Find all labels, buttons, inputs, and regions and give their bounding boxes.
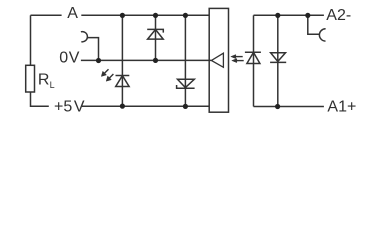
svg-text:R: R bbox=[38, 72, 50, 89]
node: A2- rail / D2 junction bbox=[275, 13, 280, 18]
LED D1 triangle (right input) bbox=[247, 52, 260, 63]
contact socket at A2- branch bbox=[319, 29, 325, 41]
svg-text:A: A bbox=[67, 5, 78, 22]
svg-text:A2-: A2- bbox=[326, 7, 351, 24]
wire: top A rail from label to module box bbox=[81, 14, 209, 16]
wire: 0V line from label to amplifier apex bbox=[81, 59, 212, 61]
svg-text:L: L bbox=[50, 80, 55, 90]
wire: rail 2 vertical (zener Z1 branch) bbox=[155, 15, 157, 60]
zener Z2 triangle bbox=[178, 79, 195, 87]
LED LD1 triangle bbox=[116, 76, 129, 87]
wire: A2- branch down and right bbox=[308, 15, 320, 34]
wire: right input left vertical (LED D1 branch) bbox=[253, 15, 255, 106]
svg-text:+5V: +5V bbox=[54, 98, 85, 115]
module box U1 bbox=[209, 8, 228, 112]
zener Z1 triangle bbox=[148, 30, 164, 40]
diode D2 cathode bar bbox=[270, 61, 286, 63]
svg-text:A1+: A1+ bbox=[327, 98, 356, 115]
zener Z1 cathode bar with hook bbox=[147, 29, 163, 32]
diode D2 triangle (reverse protection) bbox=[271, 53, 286, 62]
contact socket at 0V branch bbox=[81, 32, 88, 42]
wire: 0V branch stub to junction bbox=[87, 38, 99, 61]
wire: right input right vertical (diode D2 branch) bbox=[277, 15, 279, 106]
node: A rail / rail2 junction bbox=[153, 13, 158, 18]
resistor R_L bbox=[26, 65, 35, 92]
wire: right input top rail bbox=[254, 14, 324, 16]
wire: rail 3 vertical (zener Z2 branch) bbox=[184, 15, 186, 106]
wire: left vertical from A rail to resistor bbox=[30, 15, 32, 65]
wire: resistor bottom to +5V rail corner bbox=[31, 92, 49, 106]
node: +5V rail / rail3 junction bbox=[183, 104, 188, 109]
node: 0V / socket stub junction bbox=[96, 58, 101, 63]
node: 0V / rail2 junction bbox=[153, 58, 158, 63]
LED LD1 light arrows bbox=[101, 69, 113, 81]
node: A1+ rail / D2 junction bbox=[275, 104, 280, 109]
optocoupler light arrows bbox=[231, 55, 244, 63]
LED LD1 cathode bar bbox=[116, 75, 130, 77]
wire: bottom +5V rail from label to module box bbox=[82, 105, 209, 107]
wire: top A rail left segment bbox=[31, 14, 62, 16]
LED D1 cathode bar bbox=[245, 51, 261, 53]
node: A2- rail / socket branch junction bbox=[305, 13, 310, 18]
wire: right input bottom rail bbox=[254, 106, 324, 108]
node: A rail / rail3 junction bbox=[183, 13, 188, 18]
op-amp triangle inside module bbox=[211, 53, 223, 67]
wire: rail 1 vertical (LED branch) bbox=[121, 15, 123, 106]
node: A rail / rail1 junction bbox=[120, 13, 125, 18]
node: +5V rail / rail1 junction bbox=[120, 104, 125, 109]
zener Z2 cathode bar with hook bbox=[177, 85, 195, 88]
svg-text:0V: 0V bbox=[59, 50, 79, 67]
